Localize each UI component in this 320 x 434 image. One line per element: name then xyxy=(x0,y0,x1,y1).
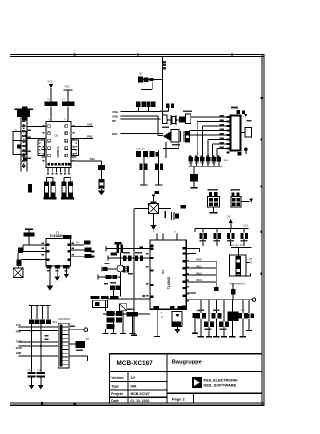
svg-text:HW.: HW. xyxy=(131,384,137,388)
svg-text:VDD: VDD xyxy=(65,87,70,89)
svg-text:5V: 5V xyxy=(76,241,79,244)
svg-text:DP: DP xyxy=(112,119,116,123)
svg-text:5V: 5V xyxy=(228,216,231,219)
svg-text:D3: D3 xyxy=(161,270,165,274)
svg-text:R20 4K7 R21: R20 4K7 R21 xyxy=(231,245,245,247)
svg-text:RP1: RP1 xyxy=(52,321,57,324)
svg-text:RxD1: RxD1 xyxy=(16,347,23,350)
svg-text:MCB-XC167: MCB-XC167 xyxy=(131,392,150,396)
svg-text:CON-MOD: CON-MOD xyxy=(58,318,70,321)
svg-text:P9.1: P9.1 xyxy=(197,265,203,268)
svg-text:MCB-XC167: MCB-XC167 xyxy=(117,360,154,367)
svg-text:TxD1: TxD1 xyxy=(16,341,23,344)
svg-text:TLE4266: TLE4266 xyxy=(50,234,64,238)
svg-text:VSB: VSB xyxy=(112,110,118,114)
svg-text:TL084D: TL084D xyxy=(167,276,171,289)
svg-text:P9.2: P9.2 xyxy=(197,272,203,275)
svg-text:VCC: VCC xyxy=(48,80,53,83)
svg-text:Date: Date xyxy=(111,399,118,403)
svg-text:5V: 5V xyxy=(249,259,252,261)
svg-text:see comment 1: see comment 1 xyxy=(230,283,246,286)
svg-text:VCC: VCC xyxy=(244,225,249,228)
svg-text:KEIL SOFTWARE: KEIL SOFTWARE xyxy=(204,383,237,388)
svg-text:C8: C8 xyxy=(55,134,59,138)
svg-text:R1B: R1B xyxy=(87,135,92,139)
svg-text:3.0: 3.0 xyxy=(131,376,136,380)
svg-text:A1B: A1B xyxy=(87,123,92,127)
svg-text:01. 10. 2002: 01. 10. 2002 xyxy=(131,399,150,403)
svg-text:RxD: RxD xyxy=(16,331,21,334)
svg-text:C14 C15: C14 C15 xyxy=(136,149,145,151)
svg-text:TxD: TxD xyxy=(16,324,21,327)
svg-text:P9.0: P9.0 xyxy=(197,259,203,262)
svg-text:Projekt: Projekt xyxy=(111,392,123,396)
svg-text:Type: Type xyxy=(111,384,119,388)
svg-text:XSB: XSB xyxy=(112,114,118,118)
svg-text:DSL: DSL xyxy=(112,132,118,136)
svg-text:Page 2: Page 2 xyxy=(172,397,186,402)
svg-text:P9.3: P9.3 xyxy=(197,279,203,282)
svg-text:Baugruppe: Baugruppe xyxy=(172,360,202,366)
svg-text:GND: GND xyxy=(16,352,22,355)
svg-text:Version: Version xyxy=(111,376,123,380)
svg-text:C505CA: C505CA xyxy=(56,146,60,158)
svg-text:BAL: BAL xyxy=(90,158,96,161)
